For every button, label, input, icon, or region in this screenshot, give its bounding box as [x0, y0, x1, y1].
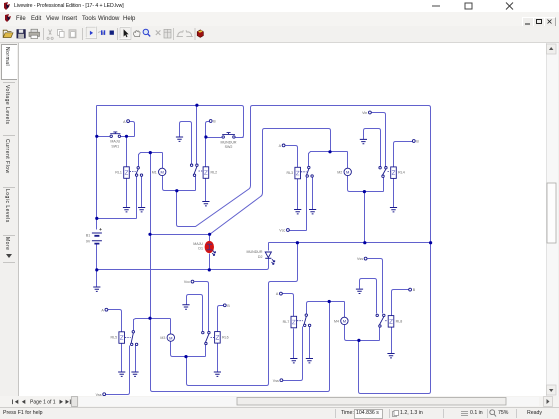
relay coil RL1: [115, 167, 129, 179]
svg-text:M: M: [169, 335, 172, 340]
wire M1 bottom row: [163, 176, 196, 191]
schematic canvas svg placeholder: [18, 43, 545, 396]
relay coil RL8: [388, 316, 402, 328]
switch SW1 MAJU: [110, 132, 121, 148]
pointer button (raised, selected): [120, 27, 131, 39]
wire RL1 common to node row: [139, 153, 163, 167]
sidebar tabs: [1, 44, 17, 80]
wire terminal Vss4 loop: [283, 327, 303, 381]
node M1 bottom row: [175, 189, 178, 192]
link RL6 to contact: [211, 337, 215, 339]
svg-text:A: A: [279, 144, 282, 148]
svg-text:RL5: RL5: [111, 336, 118, 340]
wire terminal Vss3 loop: [106, 346, 130, 395]
relay coil RL7: [283, 316, 297, 328]
rotate right icon (disabled): [186, 30, 193, 36]
node D1 cathode / negative row: [208, 268, 211, 271]
wire top rail to RL2 common: [196, 106, 198, 164]
ground hook 2 symbol: [360, 139, 367, 143]
node sub3 common row / central net: [148, 317, 151, 320]
ground hook 4 symbol: [356, 289, 363, 293]
svg-text:B1: B1: [86, 234, 90, 238]
ground below RL8 coil: [387, 354, 394, 358]
terminal Vcc sub3: [184, 280, 194, 284]
contact set of RL1: [135, 167, 142, 177]
svg-text:MAJU: MAJU: [193, 242, 203, 246]
wire D1 bottom stem: [209, 254, 211, 270]
terminal B sub4: [409, 288, 416, 292]
link RL7 to contact: [297, 320, 303, 322]
terminal A sub1: [123, 120, 129, 124]
svg-text:D2: D2: [258, 255, 263, 259]
wire RL1 coil feed: [126, 137, 128, 167]
wire RL1 throw to battery rail: [97, 177, 137, 219]
vertical scrollbar: [546, 43, 558, 396]
wire M2 top stem: [347, 152, 349, 169]
contact set of RL5: [131, 331, 138, 346]
save icon: [17, 29, 26, 38]
component gallery icon: [197, 30, 203, 38]
ground below RL7 coil: [290, 359, 297, 363]
wire RL7 throw to ground: [309, 327, 311, 359]
wire RL6 B loop: [218, 306, 224, 332]
ground below battery B1: [93, 287, 100, 291]
terminal Vss sub4: [357, 257, 367, 261]
run button (raised): [86, 27, 97, 38]
contact set of RL4: [379, 167, 387, 178]
node SW1 row / RL1 feed: [125, 135, 128, 138]
svg-text:Page 1 of 1: Page 1 of 1: [30, 399, 56, 405]
ground below RL1 coil: [123, 208, 130, 212]
terminal Vss sub3: [96, 393, 106, 397]
svg-text:Vss: Vss: [96, 393, 102, 396]
wire terminal A1 loop: [130, 122, 135, 137]
wire ground hook 2: [364, 129, 381, 167]
wire RL4 B loop: [394, 142, 413, 167]
separator: [173, 28, 175, 40]
relay coil RL3: [287, 167, 301, 179]
node M2 bottom row: [363, 190, 366, 193]
switch SW2 MUNDUR: [221, 133, 237, 149]
MDI window buttons: [522, 17, 534, 27]
ground hook 1 symbol: [176, 137, 183, 141]
svg-text:RL7: RL7: [283, 320, 290, 324]
wire RL3 throw to Vcc row: [290, 178, 307, 231]
node B row / right rail: [429, 241, 432, 244]
svg-text:A: A: [123, 120, 126, 124]
wire central vertical net: [151, 153, 330, 392]
wire terminal Vin to RL4 contact: [372, 113, 386, 167]
wire terminal A3 to RL5 coil: [108, 310, 122, 332]
wire M2 bottom row: [348, 176, 384, 192]
wire terminal B1 loop: [206, 122, 210, 138]
svg-text:SW1: SW1: [111, 144, 119, 148]
terminal Vin sub2: [362, 111, 371, 115]
ground below RL2 coil: [202, 202, 209, 206]
wire RL5 common to node row: [134, 319, 171, 331]
delete icon (disabled): [156, 30, 161, 35]
wire RL7 common to node row: [307, 302, 345, 314]
wire RL4 coil to ground: [393, 177, 395, 208]
wire RL8 coil to ground: [391, 328, 393, 354]
wire M1 top stem: [162, 153, 164, 169]
copy icon (disabled): [58, 30, 63, 36]
node B row / D2 drop: [296, 241, 299, 244]
svg-text:M: M: [161, 170, 164, 175]
node SW1 row / left rail: [95, 135, 98, 138]
node battery rail: [95, 217, 98, 220]
node M4 bottom row: [357, 339, 360, 342]
svg-text:MUNDUR: MUNDUR: [247, 250, 263, 254]
contact set of RL7: [304, 314, 311, 327]
svg-text:MAJU: MAJU: [110, 140, 120, 144]
undo icon (disabled): [86, 32, 92, 35]
svg-text:M: M: [346, 170, 349, 175]
svg-text:Vin: Vin: [362, 111, 367, 115]
paste icon (disabled): [69, 30, 76, 38]
wire RL2 coil to ground: [205, 179, 207, 202]
terminal Vcc sub2: [279, 229, 289, 233]
wire inner return net (M1 row to top rail 2 to right rail to bottom rail 3): [177, 106, 431, 394]
hand tool icon: [134, 31, 140, 37]
terminal Vss sub4 bottom: [273, 379, 283, 383]
svg-text:RL6: RL6: [222, 335, 229, 339]
node SW2 row / RL2 coil: [204, 135, 207, 138]
ground below RL4 coil: [390, 208, 397, 212]
wire RL3 throw to ground: [312, 178, 314, 210]
link RL8 to contact: [385, 320, 387, 322]
toolbar: [0, 26, 559, 43]
link RL5 to contact: [125, 337, 131, 339]
wire RL7 coil to ground: [293, 329, 295, 359]
motor M4: [334, 317, 348, 324]
relay coil RL2: [203, 167, 217, 179]
link RL1 to contact: [130, 171, 136, 173]
svg-text:RL2: RL2: [211, 171, 218, 175]
svg-text:Vss: Vss: [273, 379, 279, 383]
contact set of RL2: [190, 164, 198, 177]
wire ground hook 3: [187, 295, 203, 332]
terminal B sub2: [412, 140, 419, 144]
wire RL1 coil to ground: [126, 179, 128, 208]
wire M4 top stem: [344, 302, 346, 318]
node B row / M2 drop: [363, 241, 366, 244]
wire ground hook 1: [180, 122, 192, 164]
wire RL6 coil to ground: [217, 344, 219, 373]
svg-text:M4: M4: [334, 320, 339, 324]
svg-text:B: B: [213, 120, 216, 124]
wire switch SW2 row: [206, 137, 244, 139]
status bar: [0, 407, 559, 419]
svg-text:Vcc: Vcc: [184, 280, 190, 284]
ground below RL5 coil: [118, 372, 125, 376]
wire RL3 common to node row: [309, 152, 348, 167]
wire RL5 throw to ground: [135, 346, 137, 373]
terminal A sub3: [101, 308, 107, 312]
wire M3 top stem: [170, 319, 172, 334]
title bar: [0, 0, 559, 12]
node D1 anode: [208, 233, 211, 236]
wire switch SW1 row: [97, 136, 135, 138]
cut icon (disabled): [47, 30, 53, 40]
ground below RL6 coil: [214, 372, 221, 376]
contact set of RL6: [202, 331, 210, 344]
separator: [194, 28, 196, 40]
wire RL3 coil to ground: [297, 177, 299, 210]
wire left supply rail: [96, 106, 98, 230]
ground below RL3 coil: [294, 210, 301, 214]
node battery negative: [95, 268, 98, 271]
print icon: [29, 32, 40, 36]
svg-text:Vss: Vss: [357, 257, 363, 261]
canvas: [18, 43, 546, 396]
ground below RL1 contact: [138, 208, 145, 212]
svg-text:M2: M2: [337, 171, 342, 175]
separator: [82, 28, 84, 40]
redo icon (disabled): [98, 32, 104, 35]
link RL3 to contact: [301, 171, 307, 173]
terminal B sub3: [223, 304, 230, 308]
svg-text:D1: D1: [198, 247, 203, 251]
wire ground hook 4: [360, 279, 377, 314]
wire B row: [269, 242, 431, 244]
LED D1 MAJU (lit red): [193, 241, 215, 256]
motor M3: [160, 334, 174, 341]
svg-text:B: B: [227, 304, 230, 308]
zoom tool icon: [143, 29, 148, 34]
LED D2 MUNDUR: [247, 250, 275, 264]
wire outer return net (D1 node to sub2 feed): [210, 129, 331, 235]
svg-text:Vcc: Vcc: [279, 229, 285, 233]
svg-text:M3: M3: [160, 336, 165, 340]
ground below RL3 contact: [309, 210, 316, 214]
wire rail loop sub3 (M3 row to B row): [187, 243, 298, 386]
contact set of RL3: [306, 166, 313, 177]
node top rail / RL2 feed: [195, 104, 198, 107]
pause button: [101, 30, 103, 35]
wire D2 top stem: [268, 243, 270, 251]
terminal A sub4: [276, 292, 282, 296]
wire battery to ground: [96, 245, 98, 288]
wire terminal A2 to RL3 coil: [286, 146, 298, 168]
svg-text:RL3: RL3: [287, 171, 294, 175]
relay coil RL5: [111, 332, 125, 344]
node RL1 common row / central net: [149, 151, 152, 154]
ground below RL7 contact: [306, 359, 313, 363]
svg-text:M: M: [343, 319, 346, 324]
wire SW2 feed to RL2 coil: [205, 138, 207, 167]
relay coil RL6: [215, 332, 229, 344]
wire M4 bottom row: [345, 325, 380, 341]
wire D1 top stem: [209, 235, 211, 242]
relay coil RL4: [391, 167, 405, 179]
motor M1: [152, 168, 166, 175]
node sub2 feed: [328, 150, 331, 153]
svg-text:A: A: [276, 292, 279, 296]
open icon: [3, 33, 13, 38]
wire RL8 B loop: [392, 290, 409, 316]
terminal B sub1: [209, 120, 216, 124]
svg-text:RL1: RL1: [115, 171, 122, 175]
svg-text:RL4: RL4: [398, 171, 405, 175]
wire RL5 coil to ground: [121, 344, 123, 373]
svg-text:B: B: [416, 140, 419, 144]
svg-text:9V: 9V: [86, 240, 91, 244]
wire node to B row drop: [364, 192, 366, 243]
wire battery negative row to D2: [97, 259, 269, 270]
rotate left icon (disabled): [177, 30, 184, 36]
battery B1 9V: [86, 228, 102, 244]
svg-text:RL8: RL8: [396, 319, 403, 323]
separator: [117, 28, 119, 40]
menu bar: [0, 12, 559, 26]
terminal A sub2: [279, 144, 285, 148]
svg-text:B: B: [413, 288, 416, 292]
node M3 bottom row: [184, 355, 187, 358]
motor M2: [337, 168, 351, 175]
stop button: [110, 31, 114, 35]
svg-text:M1: M1: [152, 171, 157, 175]
wire M3 bottom row: [171, 342, 206, 357]
link RL4 to contact: [388, 171, 391, 173]
wire top rail left segment: [97, 106, 244, 138]
wire terminal Vcc3 to RL6 contact: [195, 282, 209, 332]
ground hook 3 symbol: [182, 305, 189, 309]
wire D1 anode row: [151, 234, 210, 236]
separator: [43, 28, 45, 40]
wire RL1 throw to ground: [141, 177, 143, 208]
link RL2 to contact: [199, 170, 203, 172]
svg-text:SW2: SW2: [225, 145, 233, 149]
contact set of RL8: [376, 314, 385, 327]
wire terminal Vss to RL8 contact: [368, 259, 383, 314]
node M4 top row / central net: [328, 300, 331, 303]
node D1 row / central net: [148, 233, 151, 236]
wire terminal A4 to RL7 coil: [283, 294, 294, 317]
page bar + horizontal scrollbar: [0, 396, 559, 407]
gallery icon (disabled): [164, 29, 171, 38]
svg-text:MUNDUR: MUNDUR: [221, 140, 237, 144]
ground below RL5 contact: [131, 372, 138, 376]
svg-text:A: A: [101, 308, 104, 312]
